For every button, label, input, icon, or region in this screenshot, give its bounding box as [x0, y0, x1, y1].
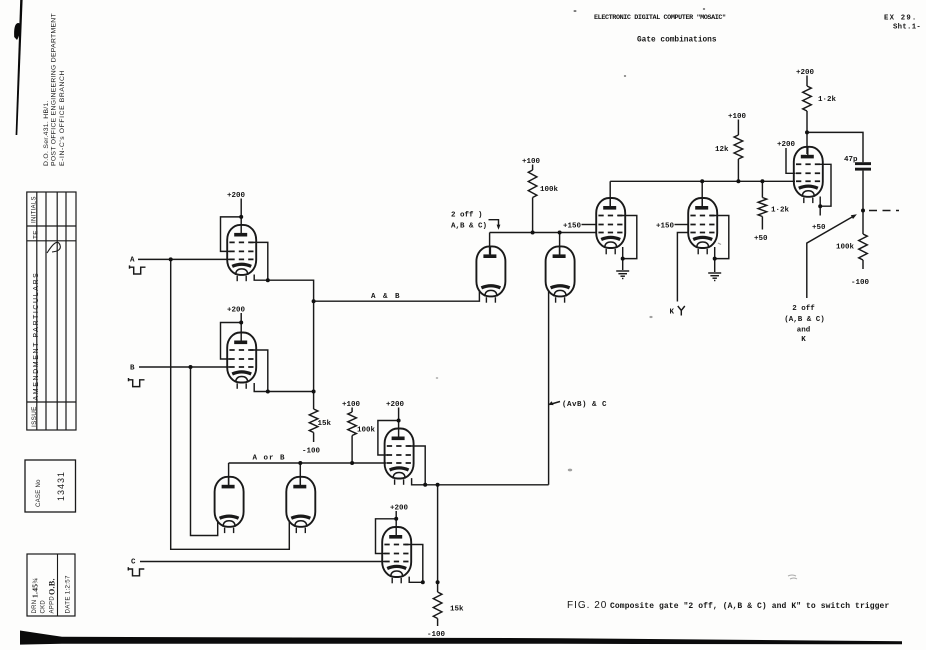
svg-text:CKD: CKD: [41, 600, 47, 614]
svg-text:DRN: DRN: [32, 600, 38, 614]
svg-text:100k: 100k: [836, 244, 855, 252]
svg-text:-100: -100: [427, 631, 446, 639]
svg-text:100k: 100k: [540, 186, 559, 194]
svg-text:C: C: [131, 559, 136, 567]
svg-text:INITIALS: INITIALS: [32, 196, 38, 223]
svg-text:2 off ): 2 off ): [451, 212, 483, 220]
svg-text:15k: 15k: [450, 606, 464, 614]
svg-text:+100: +100: [342, 401, 361, 409]
svg-text:Gate combinations: Gate combinations: [637, 37, 717, 45]
svg-text:+200: +200: [386, 401, 405, 409]
svg-text:and: and: [797, 327, 811, 335]
svg-text:15k: 15k: [318, 420, 332, 428]
svg-text:1·2k: 1·2k: [771, 207, 790, 215]
svg-text:FIG. 20: FIG. 20: [567, 600, 607, 611]
svg-text:47p: 47p: [844, 156, 858, 164]
svg-text:13431: 13431: [56, 471, 66, 501]
svg-text:+100: +100: [728, 113, 747, 121]
svg-text:A,B & C): A,B & C): [451, 223, 487, 231]
svg-text:CASE No: CASE No: [36, 479, 42, 507]
svg-text:POST OFFICE ENGINEERING DEPART: POST OFFICE ENGINEERING DEPARTMENT: [51, 13, 58, 166]
svg-text:2 off: 2 off: [792, 305, 815, 313]
svg-text:(AvB) & C: (AvB) & C: [562, 401, 607, 409]
svg-text:(A,B & C): (A,B & C): [784, 316, 825, 324]
svg-text:A: A: [130, 257, 135, 265]
svg-text:+150: +150: [563, 222, 582, 230]
svg-text:ISSUE: ISSUE: [31, 406, 38, 427]
svg-text:APPD: APPD: [50, 596, 56, 614]
svg-text:E-IN-C's OFFICE BRANCH: E-IN-C's OFFICE BRANCH: [59, 70, 66, 166]
svg-text:A or B: A or B: [253, 455, 286, 463]
svg-text:TE: TE: [33, 230, 40, 239]
svg-text:O.B.: O.B.: [48, 578, 57, 595]
svg-text:Composite gate "2 off, (A,B &: Composite gate "2 off, (A,B & C) and K" …: [610, 602, 889, 611]
svg-text:EX 29.: EX 29.: [884, 15, 917, 23]
svg-text:D.O. Ser.431. HB/1.: D.O. Ser.431. HB/1.: [43, 100, 50, 166]
svg-text:Sht.1-: Sht.1-: [893, 24, 921, 32]
svg-text:+200: +200: [390, 505, 409, 513]
svg-text:A & B: A & B: [371, 293, 401, 301]
svg-text:12k: 12k: [715, 146, 729, 154]
svg-text:ELECTRONIC DIGITAL COMPUTER "M: ELECTRONIC DIGITAL COMPUTER "MOSAIC": [594, 14, 726, 22]
svg-text:+100: +100: [522, 158, 541, 166]
svg-text:+50: +50: [812, 224, 826, 232]
svg-text:+200: +200: [796, 69, 815, 77]
svg-text:+150: +150: [656, 222, 675, 230]
svg-text:+200: +200: [227, 192, 246, 200]
svg-text:1·2k: 1·2k: [818, 96, 837, 104]
svg-text:+50: +50: [754, 235, 768, 243]
svg-text:1.45¾: 1.45¾: [31, 578, 40, 598]
svg-text:K: K: [670, 309, 675, 317]
svg-text:AMENDMENT PARTICULARS: AMENDMENT PARTICULARS: [33, 272, 40, 401]
svg-text:+200: +200: [777, 141, 796, 149]
svg-text:100k: 100k: [357, 427, 376, 435]
svg-text:DATE 1:2:57: DATE 1:2:57: [65, 575, 72, 614]
svg-text:-100: -100: [851, 279, 870, 287]
svg-text:+200: +200: [227, 307, 246, 315]
svg-text:-100: -100: [302, 448, 321, 456]
svg-text:K: K: [801, 336, 806, 344]
svg-text:B: B: [130, 365, 135, 373]
